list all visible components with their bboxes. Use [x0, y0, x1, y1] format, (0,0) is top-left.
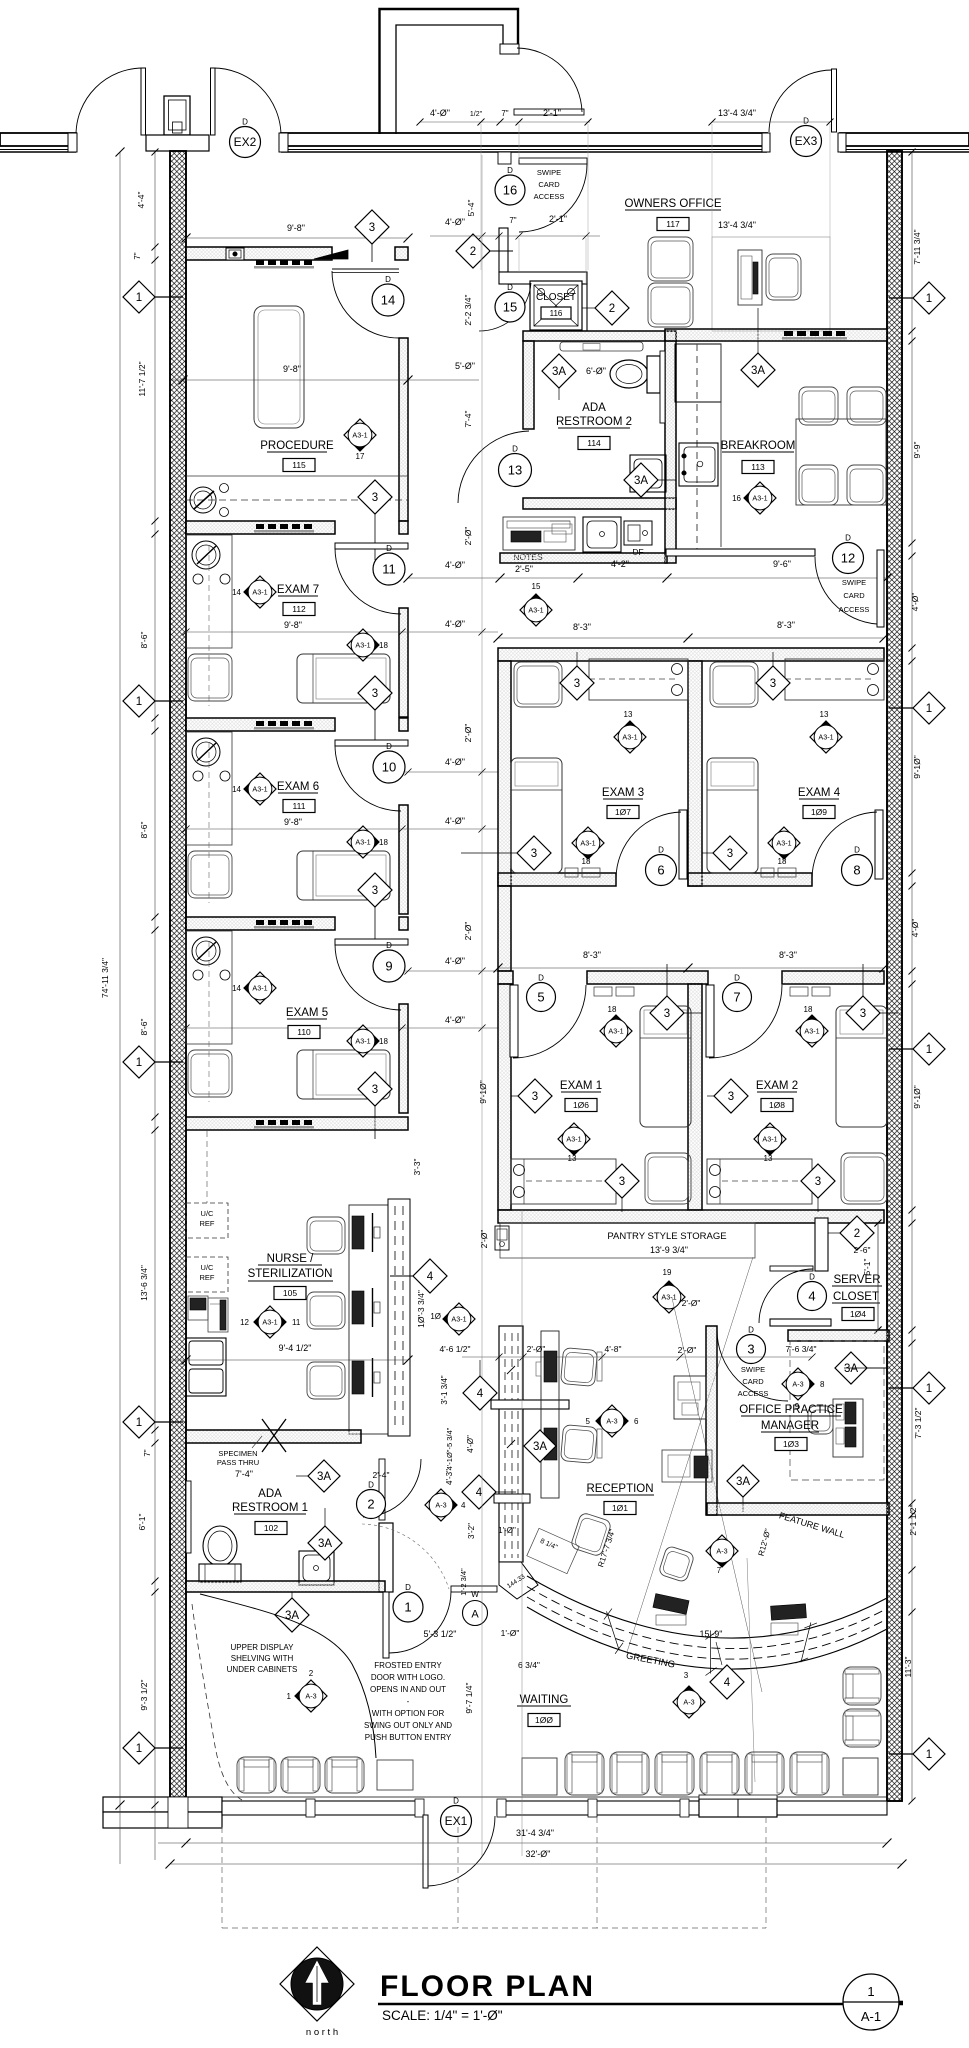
svg-text:9'-7 1/4": 9'-7 1/4": [464, 1682, 474, 1713]
svg-text:NURSE /: NURSE /: [267, 1253, 314, 1265]
svg-text:A3-1: A3-1: [252, 587, 267, 596]
wall restroom1 right: [379, 1523, 393, 1592]
wall right of EXAM 7: [399, 608, 408, 717]
svg-text:4'-Ø": 4'-Ø": [445, 757, 465, 767]
svg-text:3: 3: [664, 1008, 670, 1020]
svg-text:EXAM 6: EXAM 6: [277, 781, 319, 793]
svg-text:114: 114: [587, 438, 601, 448]
wall right of EXAM 6: [399, 805, 408, 914]
svg-text:3: 3: [727, 848, 733, 860]
keynote diamond 1: [123, 1046, 155, 1078]
svg-text:A3-1: A3-1: [528, 605, 543, 614]
room number 112: [283, 603, 315, 616]
svg-text:3A: 3A: [533, 1441, 547, 1453]
restroom1 sink: [299, 1551, 334, 1585]
EXAM 5 side chair: [188, 1050, 232, 1097]
svg-text:16: 16: [503, 183, 517, 198]
svg-text:2'-Ø": 2'-Ø": [463, 922, 473, 941]
svg-text:3: 3: [372, 492, 378, 504]
svg-text:7'-4": 7'-4": [235, 1469, 253, 1479]
svg-text:D: D: [368, 1481, 374, 1490]
counter keyboards and monitors: [653, 1594, 689, 1615]
svg-text:SWING OUT ONLY AND: SWING OUT ONLY AND: [364, 1721, 452, 1730]
wall closet right vertical: [579, 284, 587, 331]
svg-text:7'-3 1/2": 7'-3 1/2": [913, 1407, 923, 1438]
keynote diamond 4: [462, 1475, 496, 1509]
svg-text:1Ø'-3 3/4": 1Ø'-3 3/4": [416, 1290, 426, 1328]
keynote diamond 3: [713, 836, 747, 870]
svg-text:1'-Ø": 1'-Ø": [501, 1628, 520, 1638]
keynote diamond 3: [605, 1164, 639, 1198]
svg-text:UNDER CABINETS: UNDER CABINETS: [227, 1665, 298, 1674]
reception printer desk: [674, 1376, 706, 1419]
exterior top wall right segment: [840, 133, 969, 146]
svg-text:9'-4 1/2": 9'-4 1/2": [279, 1343, 312, 1353]
svg-text:1: 1: [926, 1044, 932, 1056]
svg-text:5'-4": 5'-4": [466, 200, 476, 217]
server closet door: [770, 1266, 813, 1271]
svg-text:13: 13: [624, 710, 633, 719]
svg-text:4'-Ø": 4'-Ø": [445, 956, 465, 966]
door 3 OPM swing: [717, 1330, 788, 1401]
svg-text:3A: 3A: [844, 1363, 858, 1375]
svg-text:2'-Ø": 2'-Ø": [678, 1345, 697, 1355]
nurse double sink: [186, 1338, 226, 1396]
nurse chair: [307, 1217, 345, 1254]
svg-text:A3-1: A3-1: [580, 838, 595, 847]
owners office soffit outline: [712, 237, 830, 331]
svg-text:6 3/4": 6 3/4": [518, 1660, 540, 1670]
OPM desk: [833, 1399, 863, 1457]
reception counter return bars: [491, 1400, 569, 1409]
room number 1ØØ: [528, 1714, 560, 1727]
door tag 11: [373, 544, 405, 585]
hall sink: [583, 517, 621, 552]
keynote diamond 3A: [308, 1526, 342, 1560]
keynote diamond 2: [456, 234, 490, 268]
room number 1Ø3: [775, 1438, 807, 1451]
svg-text:2'-Ø": 2'-Ø": [463, 527, 473, 546]
keynote diamond 3: [518, 1079, 552, 1113]
EXAM 1 equipment top: [594, 987, 612, 996]
keynote diamond 4: [710, 1665, 744, 1699]
svg-text:3A: 3A: [751, 365, 765, 377]
svg-text:1: 1: [404, 1600, 411, 1615]
door tag 9: [373, 941, 405, 982]
reception half wall dashed: [499, 1326, 523, 1562]
svg-text:1'-2 3/4": 1'-2 3/4": [459, 1568, 468, 1596]
leader lines to greeting counter: [627, 1257, 753, 1652]
svg-text:3: 3: [532, 1091, 538, 1103]
keynote diamond 1: [913, 692, 945, 724]
svg-text:A3-1: A3-1: [352, 430, 367, 439]
undercounter fridge 1: [186, 1203, 228, 1238]
svg-text:2: 2: [470, 246, 476, 258]
OPM dashed room outline: [790, 1341, 884, 1480]
svg-text:EXAM 4: EXAM 4: [798, 787, 841, 799]
svg-text:4: 4: [461, 1501, 466, 1510]
wall server closet bottom stub: [770, 1319, 831, 1326]
section tag A3-1: [754, 1123, 786, 1155]
svg-text:D: D: [507, 283, 513, 292]
keynote diamond 3A: [624, 463, 658, 497]
casework triangle marker: [314, 250, 348, 259]
svg-text:1: 1: [926, 1383, 932, 1395]
EXAM 4 desk: [785, 659, 884, 700]
svg-text:9'-1Ø": 9'-1Ø": [478, 1080, 488, 1104]
svg-text:SWIPE: SWIPE: [741, 1365, 765, 1374]
svg-text:A3-1: A3-1: [355, 837, 370, 846]
section tag A3-1: [558, 1123, 590, 1155]
waiting end tables: [522, 1758, 557, 1795]
room label EXAM 7: [277, 584, 319, 596]
nurse chair: [307, 1362, 345, 1399]
svg-text:8'-3": 8'-3": [779, 950, 797, 960]
svg-text:10: 10: [382, 760, 396, 775]
svg-text:4'-2": 4'-2": [611, 559, 629, 569]
keynote diamond 3A: [524, 1430, 556, 1462]
svg-text:A3-1: A3-1: [252, 983, 267, 992]
svg-text:D: D: [803, 117, 809, 126]
upper cabinet dash marks: [254, 721, 314, 730]
svg-text:A3-1: A3-1: [566, 1134, 581, 1143]
room dimension line EXAM 7: [186, 631, 498, 633]
svg-text:117: 117: [666, 219, 680, 229]
section tag A3-1: [443, 1303, 475, 1335]
door of EXAM 6 leaf and swing: [335, 740, 408, 746]
svg-text:11: 11: [382, 562, 396, 577]
wall corridor horizontal: [499, 272, 587, 284]
svg-text:18: 18: [778, 857, 787, 866]
right dimension line: [911, 152, 913, 1801]
svg-text:A3-1: A3-1: [818, 732, 833, 741]
svg-text:A-3: A-3: [606, 1416, 617, 1425]
wall exam3 bottom: [498, 873, 616, 886]
procedure chair: [254, 306, 304, 428]
svg-text:PASS THRU: PASS THRU: [217, 1458, 259, 1467]
display shelving curve: [200, 1594, 376, 1758]
svg-text:12: 12: [841, 551, 855, 566]
svg-text:-: -: [407, 1697, 410, 1706]
room number 1Ø8: [761, 1099, 793, 1112]
section tag A3-1: [796, 1015, 828, 1047]
section tag A3-1: [614, 721, 646, 753]
svg-text:U/C: U/C: [201, 1263, 215, 1272]
keynote diamond 1: [123, 685, 155, 717]
nurse chair: [307, 1292, 345, 1329]
EXAM 4 exam bed: [707, 758, 758, 873]
svg-text:1'-Ø": 1'-Ø": [498, 1526, 516, 1535]
svg-text:6'-1": 6'-1": [137, 1514, 147, 1531]
svg-text:A-1: A-1: [861, 2009, 881, 2024]
upper cabinet dash marks: [254, 1120, 314, 1129]
svg-text:1Ø1: 1Ø1: [612, 1503, 628, 1513]
svg-text:A: A: [471, 1609, 479, 1621]
svg-text:D: D: [854, 846, 860, 855]
keynote diamond 1: [913, 282, 945, 314]
EXAM 3 exam bed: [511, 758, 562, 873]
svg-text:A3-1: A3-1: [804, 1026, 819, 1035]
svg-text:110: 110: [297, 1027, 311, 1037]
svg-text:D: D: [386, 941, 392, 950]
svg-text:A3-1: A3-1: [252, 784, 267, 793]
wall exam1/2 top: [498, 971, 513, 984]
top dimension extension lines: [420, 121, 590, 123]
svg-text:U/C: U/C: [201, 1209, 215, 1218]
svg-text:4'-4": 4'-4": [136, 192, 146, 209]
door of EXAM 3: [679, 810, 687, 879]
EXAM 2 exam bed: [836, 1006, 887, 1127]
restroom1 grab bar: [186, 1481, 191, 1553]
nurse half wall dashed: [388, 1199, 410, 1436]
waiting side chairs right: [843, 1667, 881, 1705]
svg-text:D: D: [748, 1326, 754, 1335]
section tag A-3: [596, 1405, 628, 1437]
EXAM 7 side chair: [188, 654, 232, 701]
section tag A3-1: [520, 594, 552, 626]
svg-text:8'-3": 8'-3": [583, 950, 601, 960]
EXAM 1 exam bed: [640, 1006, 691, 1127]
svg-text:13'-6 3/4": 13'-6 3/4": [139, 1265, 149, 1301]
EXAM 2 guest chair: [841, 1153, 887, 1204]
svg-text:1: 1: [136, 1417, 142, 1429]
door tag 8: [842, 846, 873, 886]
svg-text:CARD: CARD: [538, 180, 560, 189]
room label EXAM 6: [277, 781, 319, 793]
svg-text:EXAM 5: EXAM 5: [286, 1007, 328, 1019]
room number 105: [274, 1287, 306, 1300]
svg-text:105: 105: [283, 1288, 297, 1298]
room number 1Ø6: [565, 1099, 597, 1112]
left outer dimension line: [119, 152, 121, 1864]
svg-text:3: 3: [684, 1671, 689, 1680]
svg-text:PROCEDURE: PROCEDURE: [260, 440, 334, 452]
section tag A3-1: [744, 482, 776, 514]
svg-text:D: D: [658, 846, 664, 855]
door 16 swipe leaf and swing: [498, 152, 511, 164]
svg-text:2'-Ø": 2'-Ø": [463, 724, 473, 743]
svg-text:7'-11 3/4": 7'-11 3/4": [912, 229, 922, 264]
svg-text:4'-Ø": 4'-Ø": [445, 816, 465, 826]
svg-text:112: 112: [292, 604, 306, 614]
svg-text:A-3: A-3: [792, 1379, 803, 1388]
svg-text:1Ø: 1Ø: [430, 1312, 441, 1321]
svg-text:6'-Ø": 6'-Ø": [586, 366, 606, 376]
svg-text:111: 111: [293, 801, 306, 811]
svg-text:1: 1: [136, 1057, 142, 1069]
svg-text:CLOSET: CLOSET: [536, 292, 576, 303]
svg-text:7": 7": [509, 216, 516, 225]
door EX1 leaf and swing: [423, 1815, 428, 1888]
svg-text:n o r t h: n o r t h: [306, 2027, 338, 2038]
door tag 5: [527, 974, 556, 1012]
svg-text:ADA: ADA: [582, 402, 606, 414]
svg-text:2'-5": 2'-5": [515, 564, 533, 574]
waiting left table: [377, 1760, 413, 1790]
svg-text:A3-1: A3-1: [752, 493, 767, 502]
svg-text:EX1: EX1: [445, 1814, 468, 1828]
room dimension line EXAM 6: [186, 828, 498, 830]
room label PROCEDURE: [260, 440, 334, 452]
svg-text:2'-1 1/2": 2'-1 1/2": [908, 1504, 918, 1535]
svg-text:32'-Ø": 32'-Ø": [526, 1849, 551, 1859]
svg-text:2: 2: [609, 303, 615, 315]
reception workstation counter: [541, 1331, 559, 1498]
door tag 7: [723, 974, 752, 1012]
breakroom kitchen counter: [675, 344, 721, 402]
owners office desk: [738, 250, 762, 305]
svg-text:4'-6 1/2": 4'-6 1/2": [439, 1344, 470, 1354]
svg-text:2'-Ø": 2'-Ø": [527, 1344, 546, 1354]
keynote diamond 3A: [542, 354, 576, 388]
room number 1Ø4: [842, 1308, 874, 1321]
svg-text:3: 3: [728, 1091, 734, 1103]
door EX2 double doors: [68, 68, 288, 152]
room number 113: [742, 461, 774, 474]
svg-text:6: 6: [634, 1417, 639, 1426]
svg-text:1: 1: [926, 703, 932, 715]
svg-text:9'-1Ø": 9'-1Ø": [912, 1085, 922, 1109]
wall OPM top: [788, 1330, 889, 1341]
svg-text:4: 4: [476, 1487, 483, 1499]
wall hall south: [500, 553, 667, 563]
keynote diamond 1: [123, 1406, 155, 1438]
drinking fountain DF: [624, 521, 652, 545]
svg-text:11'-3": 11'-3": [903, 1656, 913, 1677]
section tag A3-1: [244, 773, 276, 805]
section tag A3-1: [254, 1306, 286, 1338]
svg-text:7": 7": [501, 109, 508, 118]
svg-text:REF: REF: [200, 1273, 215, 1282]
svg-text:STERILIZATION: STERILIZATION: [248, 1268, 333, 1280]
section tag A3-1: [810, 721, 842, 753]
door tag 15: [495, 283, 525, 322]
section tag A-3: [673, 1686, 705, 1718]
svg-text:3: 3: [531, 848, 537, 860]
svg-text:8: 8: [853, 863, 860, 878]
keynote diamond 1: [913, 1033, 945, 1065]
nurse station counter: [349, 1205, 388, 1434]
svg-text:SWIPE: SWIPE: [537, 168, 561, 177]
svg-text:9'-8": 9'-8": [287, 223, 305, 233]
wall exam1 left: [498, 984, 511, 1210]
svg-text:REF: REF: [200, 1219, 215, 1228]
svg-text:11: 11: [292, 1318, 301, 1327]
svg-text:13: 13: [764, 1154, 773, 1163]
svg-text:WITH OPTION FOR: WITH OPTION FOR: [372, 1709, 445, 1718]
svg-text:8: 8: [820, 1380, 825, 1389]
svg-text:1/2": 1/2": [470, 111, 483, 118]
svg-text:2: 2: [309, 1669, 314, 1678]
EXAM 4 wall equipment: [761, 868, 774, 877]
EXAM 2 desk: [707, 1159, 812, 1204]
svg-text:3A: 3A: [736, 1476, 750, 1488]
keynote diamond 1: [913, 1372, 945, 1404]
keynote diamond 3: [358, 676, 392, 710]
restroom2 lavatory counter top: [560, 342, 643, 351]
pantry end fixture: [495, 1226, 509, 1250]
section tag A3-1: [344, 419, 376, 451]
notes desk: [503, 517, 575, 550]
door tag 6: [646, 846, 677, 886]
wall breakroom bottom: [666, 549, 815, 556]
reception chair 1: [560, 1348, 597, 1387]
svg-text:17: 17: [356, 452, 365, 461]
svg-text:7": 7": [143, 1449, 152, 1456]
EXAM 1 guest chair: [645, 1153, 691, 1204]
section tag A-3: [425, 1489, 457, 1521]
svg-text:14: 14: [232, 984, 241, 993]
room number 115: [283, 459, 315, 472]
wall procedure right side: [399, 338, 408, 521]
svg-text:ACCESS: ACCESS: [738, 1389, 769, 1398]
svg-text:D: D: [845, 534, 851, 543]
room label EXAM 4: [798, 787, 841, 799]
svg-text:13'-9 3/4": 13'-9 3/4": [650, 1245, 688, 1255]
svg-text:4: 4: [808, 1289, 815, 1304]
svg-text:RESTROOM 1: RESTROOM 1: [232, 1502, 308, 1514]
svg-text:19: 19: [663, 1268, 672, 1277]
svg-text:3: 3: [372, 1084, 378, 1096]
svg-text:1: 1: [867, 1984, 874, 1999]
exterior wall left (hatched): [170, 151, 186, 1805]
door of EXAM 2: [706, 985, 714, 1057]
svg-text:1ØØ: 1ØØ: [535, 1715, 553, 1725]
svg-text:D: D: [242, 118, 248, 127]
svg-text:A3-1: A3-1: [661, 1292, 676, 1301]
svg-text:8'-6": 8'-6": [139, 822, 149, 839]
reception dimension line: [462, 1356, 812, 1358]
svg-text:4'-Ø": 4'-Ø": [910, 919, 920, 938]
svg-text:D: D: [809, 1273, 815, 1282]
wall OPM bottom / feature wall: [707, 1503, 889, 1515]
svg-text:BREAKROOM: BREAKROOM: [721, 440, 796, 452]
room number 111: [283, 800, 315, 813]
svg-text:15: 15: [532, 582, 541, 591]
section tag A3-1: [244, 972, 276, 1004]
nurse workstation monitor: [352, 1291, 364, 1324]
drawing number circle 1 A-1: [843, 1974, 899, 2030]
svg-text:A-3: A-3: [716, 1546, 727, 1555]
svg-text:1Ø8: 1Ø8: [769, 1100, 785, 1110]
svg-text:15'-9": 15'-9": [700, 1629, 723, 1639]
door EX3: [762, 69, 846, 152]
svg-text:D: D: [405, 1583, 411, 1592]
svg-text:4'-8": 4'-8": [605, 1344, 622, 1354]
svg-text:2'-1": 2'-1": [549, 214, 567, 224]
svg-text:ACCESS: ACCESS: [839, 605, 870, 614]
entry door leaf and swing: [451, 1586, 497, 1592]
svg-text:2: 2: [854, 1228, 860, 1240]
svg-text:5'-1": 5'-1": [862, 1259, 872, 1276]
svg-text:102: 102: [264, 1523, 278, 1533]
svg-text:SWIPE: SWIPE: [842, 578, 866, 587]
svg-text:9'-8": 9'-8": [283, 364, 301, 374]
svg-text:3: 3: [372, 885, 378, 897]
restroom2 toilet: [610, 360, 648, 388]
greeting counter curved band: [527, 1576, 887, 1638]
svg-text:D: D: [512, 445, 518, 454]
svg-text:8'-6": 8'-6": [139, 632, 149, 649]
svg-text:EXAM 1: EXAM 1: [560, 1080, 602, 1092]
svg-text:1: 1: [287, 1692, 292, 1701]
svg-text:13: 13: [568, 1154, 577, 1163]
exterior top wall left segment: [0, 133, 76, 146]
specimen pass-thru symbol: [262, 1419, 286, 1452]
svg-text:3: 3: [815, 1176, 821, 1188]
svg-text:3A: 3A: [318, 1538, 332, 1550]
breakroom chairs: [799, 387, 838, 425]
